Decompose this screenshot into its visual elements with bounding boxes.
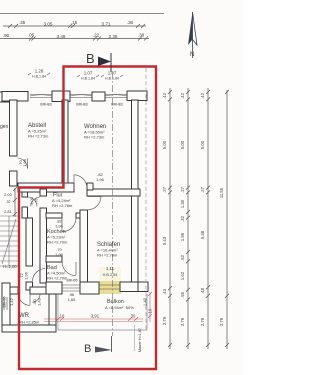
svg-text:5.43: 5.43 bbox=[162, 236, 167, 245]
win2 wohnen bbox=[70, 94, 92, 96]
wohnen south wall bbox=[87, 189, 140, 196]
win3 wohnen bbox=[105, 94, 127, 96]
svg-text:2.35: 2.35 bbox=[109, 34, 118, 39]
kochen->bad door arc bbox=[62, 262, 76, 276]
bad south window bbox=[62, 284, 80, 286]
svg-text:1,98: 1,98 bbox=[22, 158, 27, 167]
south outer wall pieces bbox=[10, 287, 18, 294]
svg-text:RH =2,78m: RH =2,78m bbox=[52, 203, 73, 208]
landing doors small arcs bbox=[28, 197, 38, 207]
svg-text:1,42: 1,42 bbox=[9, 297, 14, 306]
svg-text:.76: .76 bbox=[34, 197, 39, 203]
svg-text:.30: .30 bbox=[127, 20, 134, 25]
svg-text:1,65: 1,65 bbox=[68, 297, 77, 302]
top dimension line 2 bbox=[0, 38, 149, 40]
svg-text:30: 30 bbox=[131, 314, 136, 319]
svg-text:10: 10 bbox=[60, 314, 65, 319]
WR door bbox=[19, 294, 30, 305]
svg-text:1.30: 1.30 bbox=[180, 199, 185, 208]
svg-text:RH =2,70m: RH =2,70m bbox=[47, 240, 68, 245]
svg-text:10: 10 bbox=[148, 308, 153, 313]
svg-text:2.00: 2.00 bbox=[4, 192, 13, 197]
svg-text:1,96: 1,96 bbox=[55, 224, 64, 229]
WR south wall bbox=[2, 325, 56, 332]
stairwell east wall lower bbox=[26, 218, 33, 266]
svg-text:.43: .43 bbox=[162, 288, 167, 294]
faint top rule bbox=[0, 13, 164, 15]
svg-text:H.B.1,84: H.B.1,84 bbox=[105, 77, 119, 81]
svg-text:1.07: 1.07 bbox=[84, 71, 93, 76]
svg-text:Mauer H=1,87: Mauer H=1,87 bbox=[138, 328, 142, 352]
balcony door glazing bbox=[99, 284, 120, 286]
svg-text:2.79: 2.79 bbox=[219, 317, 224, 326]
svg-text:H.B.1,84: H.B.1,84 bbox=[32, 75, 46, 79]
svg-text:1.62: 1.62 bbox=[180, 271, 185, 280]
svg-text:.90: .90 bbox=[3, 33, 10, 38]
svg-text:3.71: 3.71 bbox=[102, 22, 111, 27]
svg-text:1.95: 1.95 bbox=[180, 232, 185, 241]
stairwell east wall upper + door gap bbox=[22, 192, 28, 197]
kochen / bad divider w/ door opening bbox=[46, 256, 62, 262]
svg-text:BRH83: BRH83 bbox=[40, 103, 52, 107]
right chain rotated labels bbox=[4, 92, 224, 326]
top dimension line 1 bbox=[3, 25, 146, 27]
svg-text:.15: .15 bbox=[71, 20, 78, 25]
svg-text:1,43: 1,43 bbox=[37, 297, 42, 306]
WR west window bbox=[3, 297, 5, 310]
svg-text:RH =2,73m: RH =2,73m bbox=[28, 134, 49, 139]
svg-text:1,96: 1,96 bbox=[24, 271, 29, 280]
svg-text:RH =2,70m: RH =2,70m bbox=[47, 276, 68, 281]
svg-text:5.00: 5.00 bbox=[162, 140, 167, 149]
svg-text:B: B bbox=[84, 343, 91, 355]
svg-text:1,11: 1,11 bbox=[106, 266, 115, 271]
svg-text:WR: WR bbox=[19, 313, 30, 319]
building right wall bbox=[132, 100, 139, 283]
dimension text: top line 1 bbox=[3, 20, 145, 39]
svg-text:2.79: 2.79 bbox=[200, 317, 205, 326]
svg-text:.22: .22 bbox=[93, 33, 100, 38]
svg-text:gen: gen bbox=[0, 124, 9, 130]
svg-text:.32: .32 bbox=[180, 215, 185, 221]
balcony door dim label bbox=[103, 266, 118, 277]
flur->kochen door arc bbox=[62, 218, 76, 232]
svg-text:.27: .27 bbox=[200, 186, 205, 192]
svg-text:.27: .27 bbox=[162, 186, 167, 192]
flur south wall w/ door opening bbox=[46, 213, 62, 218]
svg-text:H=2,00: H=2,00 bbox=[3, 264, 17, 269]
svg-text:.38: .38 bbox=[138, 33, 145, 38]
svg-text:.35: .35 bbox=[19, 20, 26, 25]
svg-text:2.79: 2.79 bbox=[180, 317, 185, 326]
svg-text:1.28: 1.28 bbox=[35, 69, 44, 74]
svg-text:.27: .27 bbox=[180, 186, 185, 192]
wohnen door arc (into wohnen) bbox=[74, 175, 87, 188]
svg-text:3,91: 3,91 bbox=[91, 314, 100, 319]
svg-text:BRH95: BRH95 bbox=[3, 296, 7, 307]
svg-text:.52: .52 bbox=[180, 254, 185, 260]
schlafen west wall bbox=[80, 210, 88, 283]
svg-text:11.55: 11.55 bbox=[219, 187, 224, 198]
svg-text:.32: .32 bbox=[6, 200, 11, 204]
kochen/bad west wall (full) with upper door gap bbox=[40, 189, 47, 196]
svg-text:RH =2,78m: RH =2,78m bbox=[97, 253, 118, 258]
abstell south wall bbox=[18, 183, 74, 192]
svg-text:5.38: 5.38 bbox=[200, 230, 205, 239]
svg-text:1,40: 1,40 bbox=[143, 297, 148, 306]
north facade wall bbox=[0, 92, 12, 102]
svg-text:1,96: 1,96 bbox=[55, 252, 64, 257]
svg-text:N: N bbox=[190, 51, 195, 58]
svg-text:A =6,94m² ·50%: A =6,94m² ·50% bbox=[105, 305, 134, 310]
window dim labels row bbox=[32, 69, 119, 81]
svg-text:.42: .42 bbox=[180, 92, 185, 98]
entrance door lower bbox=[33, 269, 46, 282]
svg-text:BRH83: BRH83 bbox=[76, 103, 88, 107]
schlafen door arc bbox=[88, 197, 101, 210]
svg-text:RH =2,73m: RH =2,73m bbox=[84, 135, 105, 140]
svg-text:H.B.2,54: H.B.2,54 bbox=[103, 273, 118, 277]
svg-text:RH =2,85m: RH =2,85m bbox=[19, 320, 40, 325]
svg-text:.48: .48 bbox=[200, 287, 205, 293]
svg-text:.42: .42 bbox=[200, 92, 205, 98]
svg-text:3.49: 3.49 bbox=[57, 34, 66, 39]
balcony red dims bbox=[44, 292, 152, 322]
svg-text:2.81: 2.81 bbox=[4, 209, 13, 214]
svg-text:.05: .05 bbox=[28, 33, 35, 38]
svg-text:BRH83: BRH83 bbox=[111, 103, 123, 107]
abstell right wall bbox=[62, 100, 68, 186]
svg-text:1,96: 1,96 bbox=[96, 177, 105, 182]
svg-text:.55: .55 bbox=[180, 291, 185, 297]
right vertical chains L1..L4 bbox=[169, 88, 171, 349]
svg-text:5.00: 5.00 bbox=[200, 140, 205, 149]
svg-text:.42: .42 bbox=[162, 92, 167, 98]
svg-text:BRH95: BRH95 bbox=[67, 279, 78, 283]
svg-text:H.B.1,84: H.B.1,84 bbox=[81, 77, 95, 81]
ticks line1 bbox=[8, 24, 145, 28]
left small chain bbox=[14, 188, 16, 217]
svg-text:2.79: 2.79 bbox=[162, 316, 167, 325]
abstell left wall (neighbour divider) with door gap bbox=[10, 100, 18, 156]
WR east wall bbox=[49, 294, 56, 330]
svg-text:3.05: 3.05 bbox=[44, 22, 53, 27]
ticks chains: common rows bbox=[168, 90, 229, 347]
win1 abstell bbox=[30, 94, 52, 96]
WR west wall bbox=[2, 283, 10, 332]
yellow balcony-door highlight (under linework) bbox=[99, 267, 121, 281]
svg-text:B: B bbox=[86, 51, 95, 66]
svg-text:5.00: 5.00 bbox=[180, 140, 185, 149]
abstell door (in neighbour wall) bbox=[18, 158, 28, 169]
